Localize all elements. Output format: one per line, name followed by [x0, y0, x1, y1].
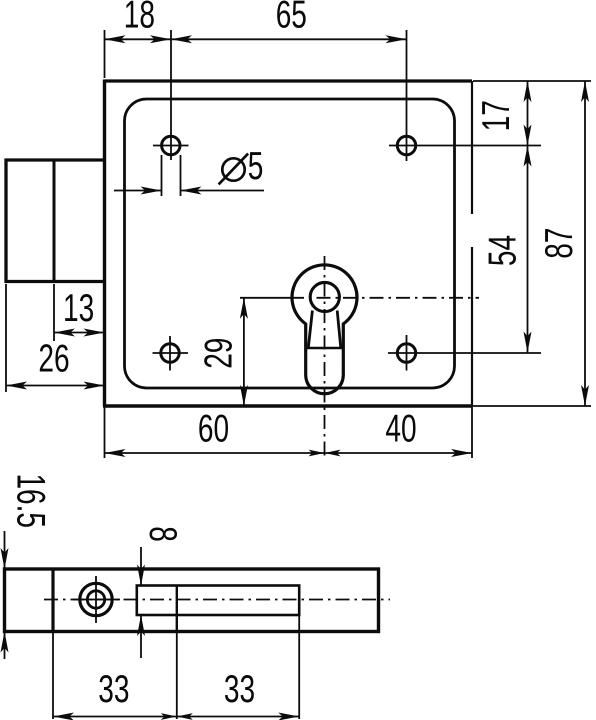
svg-text:65: 65	[276, 0, 307, 37]
svg-text:16.5: 16.5	[8, 473, 52, 527]
screw hole bottom-left	[153, 336, 189, 371]
dimension 13	[54, 284, 105, 341]
svg-text:33: 33	[224, 667, 255, 711]
svg-text:17: 17	[475, 100, 519, 131]
dimension 17	[475, 81, 532, 146]
dimension 54	[481, 146, 532, 353]
cover plate rounded rectangle	[125, 99, 455, 388]
svg-text:8: 8	[141, 526, 185, 542]
dimension 16.5	[1, 473, 53, 659]
keyhole inner circle	[310, 282, 339, 311]
svg-text:29: 29	[197, 338, 241, 369]
svg-text:13: 13	[63, 286, 94, 330]
center line vertical	[324, 256, 326, 459]
svg-text:40: 40	[385, 407, 416, 451]
screw hole bottom-right	[388, 335, 541, 371]
svg-text:5: 5	[248, 145, 264, 189]
screw hole top-left	[153, 30, 189, 160]
svg-text:26: 26	[38, 337, 69, 381]
center line horizontal	[240, 297, 479, 299]
dimension 87	[473, 81, 591, 406]
svg-text:18: 18	[124, 0, 155, 37]
lock case outer box	[103, 80, 472, 407]
dimension 65	[171, 0, 407, 43]
side view center line	[44, 599, 390, 601]
svg-text:33: 33	[98, 667, 129, 711]
dimension diameter 5	[114, 145, 264, 196]
svg-text:60: 60	[198, 407, 229, 451]
side view hole	[73, 576, 120, 623]
bolt head face line	[53, 160, 56, 282]
bolt head face side view	[51, 569, 54, 632]
bolt side view bar	[5, 569, 379, 632]
dimension 40	[325, 407, 473, 457]
keyhole wedge	[308, 311, 341, 349]
dimension 33 right	[177, 615, 299, 720]
dimension 29	[197, 298, 248, 406]
keyhole chord line	[306, 347, 344, 350]
dimension 18	[105, 0, 172, 78]
dimension 26	[6, 284, 105, 392]
bolt head plate	[6, 160, 105, 282]
keyhole outer profile	[292, 265, 357, 394]
svg-text:54: 54	[481, 235, 525, 266]
dimension 33 left	[53, 632, 177, 720]
bolt slot divider	[176, 586, 178, 632]
dimension 60	[105, 406, 473, 458]
screw hole top-right	[389, 30, 541, 161]
dimension 8	[137, 526, 185, 658]
bolt slot	[137, 586, 299, 616]
svg-text:87: 87	[538, 228, 582, 259]
